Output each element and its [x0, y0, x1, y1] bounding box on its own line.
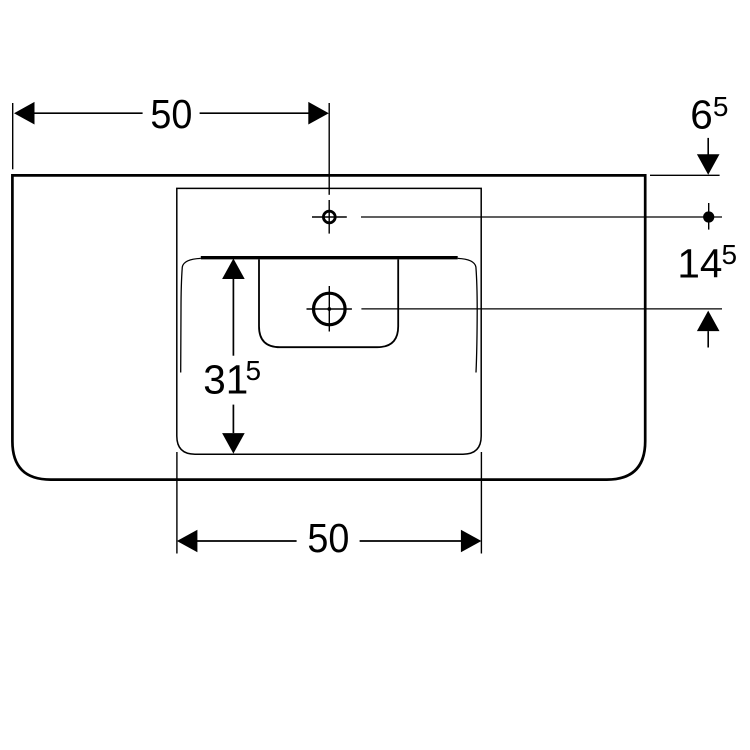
faucet leader line [361, 216, 722, 218]
drain crosshair horizontal [307, 308, 352, 310]
leader end dot [703, 211, 714, 222]
drain crosshair vertical [328, 286, 330, 332]
svg-text:6: 6 [690, 92, 713, 138]
basin left wall [181, 258, 201, 372]
31.5 arrow down [222, 433, 245, 454]
bottom 50 extension line right [480, 452, 482, 554]
svg-text:31: 31 [203, 357, 248, 403]
31.5 arrow up [222, 259, 245, 280]
14.5 arrow (up) [697, 311, 720, 332]
31.5 dimension line [232, 279, 234, 356]
drain center dot [327, 307, 331, 311]
6.5 extension line [650, 174, 720, 176]
faucet hole crosshair [312, 216, 347, 218]
top 50 dimension line [33, 112, 143, 114]
overflow shelf outline [259, 260, 398, 348]
washbasin outer outline [12, 175, 645, 479]
svg-text:14: 14 [677, 241, 722, 287]
drain leader line [361, 308, 722, 310]
basin right wall [458, 258, 478, 372]
6.5 arrow (down) [707, 138, 709, 155]
bottom 50 arrow left [177, 530, 198, 553]
svg-text:5: 5 [722, 239, 738, 270]
svg-text:50: 50 [150, 91, 192, 137]
faucet hole [323, 211, 335, 223]
basin back edge (thick) [201, 256, 458, 259]
bottom 50 arrow right [461, 530, 482, 553]
top 50 arrow left [14, 102, 35, 125]
faucet hole centerline [328, 103, 330, 195]
drain circle [314, 293, 346, 325]
bottom 50 dimension line [196, 540, 297, 542]
top 50 arrow right [308, 102, 329, 125]
top 50 dimension extension line left [12, 103, 14, 169]
svg-text:5: 5 [713, 91, 729, 122]
deck recess rectangle [177, 188, 481, 454]
bottom 50 extension line left [176, 452, 178, 554]
svg-text:5: 5 [246, 355, 262, 386]
svg-text:50: 50 [307, 515, 349, 561]
leader dot tick [708, 203, 710, 230]
